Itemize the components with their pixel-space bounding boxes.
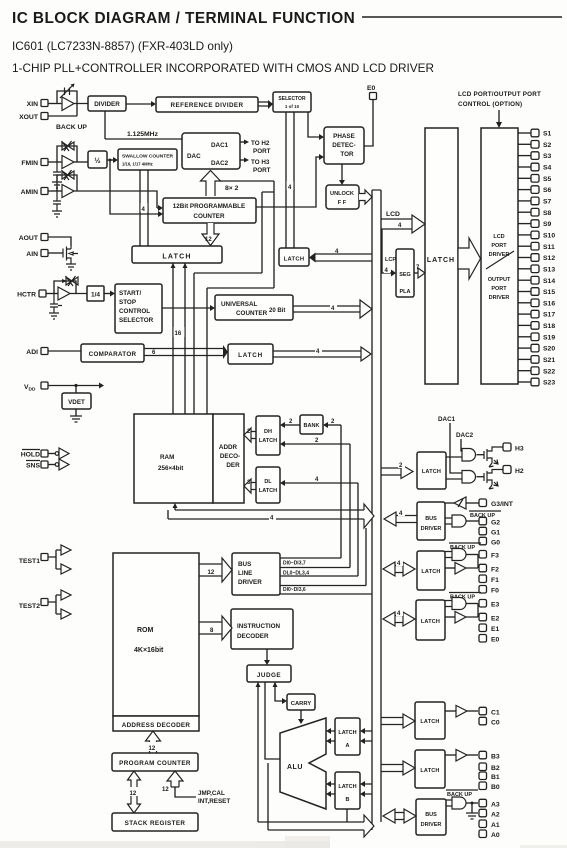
op-amp osc (62, 97, 74, 111)
wire AOUT (48, 237, 71, 246)
wire AMIN to amp (48, 190, 62, 192)
latch B box (415, 750, 445, 788)
ground AM (52, 211, 62, 217)
svg-text:TEST2: TEST2 (19, 603, 40, 610)
svg-text:DRIVER: DRIVER (489, 295, 510, 301)
svg-text:BACK UP: BACK UP (56, 124, 87, 131)
wire XIN to osc amp (48, 103, 62, 105)
label BACK UP A (446, 790, 478, 798)
svg-text:LATCH: LATCH (421, 619, 440, 625)
pin B2 (479, 763, 500, 772)
pin AIN (26, 250, 48, 259)
svg-text:B3: B3 (491, 754, 500, 761)
label 4 seg (384, 265, 390, 274)
svg-text:CARRY: CARRY (291, 701, 312, 707)
seg pla box (385, 249, 414, 297)
buffer SNS (48, 459, 69, 470)
main bus vertical A (371, 190, 373, 830)
wire gateH2 to fet (477, 476, 485, 478)
pin S13 (518, 265, 555, 273)
svg-text:LCD PORT/OUTPUT PORT: LCD PORT/OUTPUT PORT (458, 91, 541, 98)
svg-text:DECODER: DECODER (237, 633, 269, 640)
bus arrow E bidir (383, 608, 415, 626)
svg-text:LINE: LINE (238, 570, 252, 577)
pin H2 (503, 466, 524, 476)
svg-text:BUS: BUS (238, 561, 251, 568)
svg-text:E0: E0 (367, 85, 376, 92)
svg-text:12: 12 (149, 746, 156, 752)
wire judge to ALU left (265, 682, 280, 759)
transistor FM bias (53, 162, 61, 182)
unlock FF box (326, 185, 359, 209)
pin F3 (479, 551, 499, 560)
pin S16 (518, 299, 555, 307)
quarter box (87, 286, 104, 301)
scan smudge bottom (0, 836, 567, 848)
wire selector to phase detector (308, 112, 324, 140)
bus arrow B (381, 761, 415, 775)
wire HCTR to amp (46, 293, 58, 295)
wire lcd branch to seg (382, 229, 396, 277)
transistor AM bias (53, 191, 61, 211)
wire seg to tall latch 7 (414, 265, 425, 278)
ground A (466, 802, 478, 820)
svg-text:S14: S14 (543, 278, 555, 285)
pin B1 (479, 772, 500, 781)
wire DAC2 out (240, 158, 271, 175)
pin S3 (518, 152, 552, 160)
pin E1 (479, 624, 500, 633)
pin S6 (518, 186, 552, 194)
svg-text:B2: B2 (491, 765, 500, 772)
buffer pair TEST2 (48, 590, 71, 619)
reference divider box (156, 97, 258, 112)
bank box (300, 415, 323, 434)
and gate H3 (462, 449, 476, 462)
LCD port driver box (481, 128, 518, 384)
wire DAC1 out (240, 140, 271, 156)
svg-text:LCD: LCD (386, 211, 400, 218)
ground FM (52, 182, 62, 188)
bus arrow JMP into pc (162, 771, 196, 797)
svg-text:JMP,CAL: JMP,CAL (198, 790, 225, 797)
svg-text:1.125MHz: 1.125MHz (127, 131, 159, 138)
pin A0 (479, 830, 500, 839)
svg-text:HOLD: HOLD (21, 452, 40, 459)
buffer B3 (445, 750, 478, 762)
latch box main (132, 246, 222, 263)
svg-text:COMPARATOR: COMPARATOR (89, 351, 137, 358)
program counter box (112, 753, 198, 771)
wire judge to carry (273, 682, 288, 704)
wire riser2 (349, 444, 351, 568)
svg-text:LATCH: LATCH (420, 719, 439, 725)
ground HCTR (49, 313, 59, 319)
ROM box (113, 553, 199, 716)
svg-text:DAC2: DAC2 (211, 160, 229, 167)
svg-text:F0: F0 (491, 588, 499, 595)
svg-text:S6: S6 (543, 187, 552, 194)
svg-text:LATCH: LATCH (338, 784, 356, 790)
pin ADI (26, 348, 48, 357)
pin S23 (518, 378, 555, 386)
wire phase det to unlock ff (339, 164, 345, 185)
bus 16 latch drop (171, 263, 188, 414)
svg-text:12: 12 (208, 570, 215, 576)
latch E box (416, 600, 445, 640)
svg-text:12: 12 (162, 787, 169, 793)
pin E3 (479, 600, 500, 609)
svg-text:S7: S7 (543, 199, 552, 206)
svg-text:S16: S16 (543, 300, 555, 307)
svg-text:DECO-: DECO- (220, 453, 240, 460)
svg-text:UNLOCK: UNLOCK (330, 191, 354, 197)
svg-text:F F: F F (338, 200, 347, 206)
svg-text:S11: S11 (543, 244, 555, 251)
svg-text:INSTRUCTION: INSTRUCTION (237, 623, 280, 630)
wire riser2 to DH (280, 438, 350, 447)
svg-text:DRIVER: DRIVER (421, 822, 442, 828)
svg-text:1 of 10: 1 of 10 (285, 104, 300, 109)
svg-text:UNIVERSAL: UNIVERSAL (221, 301, 258, 308)
wire BLD out 1 (280, 557, 341, 559)
label 4 uc bus (330, 303, 337, 312)
svg-text:2: 2 (289, 419, 293, 425)
svg-text:REFERENCE DIVIDER: REFERENCE DIVIDER (171, 102, 244, 109)
and gate H2 (462, 471, 476, 484)
wire gateH3 to fet (477, 454, 485, 456)
wire bus to small latch (309, 253, 372, 263)
svg-text:S5: S5 (543, 176, 552, 183)
svg-text:12Bit PROGRAMMABLE: 12Bit PROGRAMMABLE (173, 203, 245, 210)
main bus vertical B (380, 190, 382, 822)
svg-text:PORT: PORT (491, 286, 507, 292)
svg-text:S3: S3 (543, 153, 552, 160)
stack register box (112, 813, 198, 831)
svg-text:DRIVER: DRIVER (421, 526, 442, 532)
buffer E2 (445, 604, 478, 624)
svg-text:1/4: 1/4 (91, 292, 100, 299)
pin S7 (518, 197, 552, 205)
label 4 fm bus (141, 203, 148, 213)
svg-text:S19: S19 (543, 334, 555, 341)
wire 8x2 (220, 181, 274, 273)
svg-text:4K×16bit: 4K×16bit (134, 647, 164, 654)
svg-text:PORT: PORT (491, 243, 507, 249)
pin S14 (518, 276, 555, 284)
svg-text:DI0~DI3,7: DI0~DI3,7 (283, 561, 306, 567)
svg-text:S22: S22 (543, 368, 555, 375)
DAC box (182, 133, 240, 169)
label BACK UP E (449, 593, 481, 601)
svg-text:PLA: PLA (400, 289, 411, 295)
wire riser1 (340, 425, 342, 558)
svg-text:ADDR: ADDR (219, 444, 238, 451)
svg-text:8× 2: 8× 2 (225, 185, 239, 192)
svg-text:E1: E1 (491, 626, 500, 633)
wire latchA to ALU (326, 728, 335, 744)
and gate G2 (445, 515, 479, 527)
svg-text:DER: DER (226, 462, 240, 469)
addr decoder box (213, 414, 244, 503)
svg-text:DH: DH (264, 429, 272, 435)
svg-text:DAC: DAC (187, 153, 201, 160)
svg-text:START/: START/ (119, 290, 142, 297)
wire VDD (48, 383, 104, 394)
svg-text:12: 12 (205, 237, 212, 243)
bus arrow 12 counter to latch (202, 223, 219, 246)
svg-text:CONTROL (OPTION): CONTROL (OPTION) (458, 101, 522, 108)
pin XIN (27, 100, 48, 109)
wire small latch drop left (194, 273, 262, 414)
universal counter box (215, 295, 293, 320)
pin S9 (518, 220, 552, 228)
pin XOUT (19, 113, 48, 122)
svg-text:A1: A1 (491, 822, 500, 829)
pin G1 (479, 527, 500, 536)
svg-text:C1: C1 (491, 710, 500, 717)
svg-text:LATCH: LATCH (420, 768, 439, 774)
wire riser4 (365, 528, 367, 586)
buffer F2 (445, 555, 478, 575)
DH latch box (256, 416, 280, 455)
diode pair FM (57, 141, 77, 162)
svg-text:PORT: PORT (253, 148, 271, 155)
svg-text:2: 2 (315, 438, 319, 444)
label BACK UP G (469, 511, 501, 519)
label BACK UP F (449, 543, 481, 551)
bus arrow ROM to BLD 12 (199, 558, 232, 582)
svg-text:AIN: AIN (26, 251, 38, 258)
svg-text:S23: S23 (543, 380, 555, 387)
buffer G3INT (445, 497, 479, 509)
svg-text:DETEC-: DETEC- (332, 142, 355, 149)
svg-text:LATCH: LATCH (338, 730, 356, 736)
wire judge feedback 2 (267, 763, 269, 830)
wire divider drop (104, 111, 106, 139)
buffer C1 (445, 706, 478, 718)
svg-text:S12: S12 (543, 255, 555, 262)
pin S17 (518, 310, 555, 318)
svg-text:DIVIDER: DIVIDER (94, 101, 120, 108)
bus swallow counter drop (140, 170, 148, 246)
svg-text:HCTR: HCTR (17, 292, 36, 299)
wire ADI to comparator (48, 350, 81, 352)
bus bottom pair (258, 815, 374, 837)
wire AM out (74, 191, 163, 211)
pin S22 (518, 367, 555, 375)
latch C box (415, 702, 445, 739)
transistor Q H3 (484, 447, 503, 467)
wire second drop left (207, 181, 274, 414)
bus arrow LCD to tall latch (381, 215, 425, 233)
pin B3 (479, 751, 500, 760)
bus comp latch out 4 (273, 346, 371, 361)
svg-text:F3: F3 (491, 553, 499, 560)
pin A2 (479, 809, 500, 818)
svg-text:IC BLOCK DIAGRAM / TERMINAL FU: IC BLOCK DIAGRAM / TERMINAL FUNCTION (12, 10, 355, 27)
svg-text:ALU: ALU (287, 764, 303, 771)
pin A1 (479, 820, 500, 829)
pin S10 (518, 231, 555, 239)
svg-text:LATCH: LATCH (162, 254, 191, 261)
latch F box (417, 551, 445, 590)
wire 1.125MHz to DAC (105, 138, 182, 140)
svg-text:INT,RESET: INT,RESET (198, 798, 230, 805)
wire osc feedback loop (48, 91, 88, 116)
svg-text:A3: A3 (491, 802, 500, 809)
svg-text:S18: S18 (543, 323, 555, 330)
wire quarter to startstop (104, 291, 115, 297)
latch B box (335, 772, 360, 809)
pin B0 (479, 782, 500, 791)
bus arrow A bidir (383, 809, 416, 823)
wire bank to DH (280, 419, 300, 428)
pin HCTR (17, 290, 46, 299)
svg-text:B1: B1 (491, 774, 500, 781)
svg-text:OUTPUT: OUTPUT (488, 277, 511, 283)
wire BLD out 4 (280, 585, 366, 587)
svg-text:1-CHIP PLL+CONTROLLER INCORPOR: 1-CHIP PLL+CONTROLLER INCORPORATED WITH … (12, 61, 434, 75)
svg-text:LATCH: LATCH (259, 438, 277, 444)
bus arrow F bidir (383, 558, 415, 576)
svg-text:E0: E0 (491, 637, 500, 644)
svg-text:H3: H3 (515, 446, 524, 453)
svg-text:A0: A0 (491, 832, 500, 839)
svg-text:TO H2: TO H2 (251, 140, 270, 147)
svg-text:E3: E3 (491, 602, 500, 609)
wire ref divider to selector (258, 100, 273, 109)
wire amp to quarter box (70, 293, 87, 295)
wire divider to reference divider (126, 101, 156, 107)
pin S21 (518, 356, 555, 364)
svg-text:LATCH: LATCH (422, 469, 441, 475)
svg-text:COUNTER: COUNTER (236, 310, 268, 317)
bus 4 selector drop (286, 112, 294, 248)
svg-text:DAC1: DAC1 (438, 416, 456, 423)
wire bus to latchB (360, 781, 372, 797)
bus line driver box (232, 553, 280, 595)
programmable counter box (163, 198, 256, 223)
svg-text:G1: G1 (491, 530, 500, 537)
latch A box (335, 718, 360, 755)
pin A3 (479, 799, 500, 808)
wire DAC2 drop (461, 439, 462, 451)
svg-text:ADI: ADI (26, 349, 38, 356)
bus universal counter out (293, 300, 372, 318)
wire half-swallow junction into prog counter (109, 159, 164, 218)
bus driver A box (416, 799, 446, 835)
svg-text:AMIN: AMIN (21, 189, 38, 196)
svg-text:S10: S10 (543, 233, 555, 240)
svg-text:DI0~DI3,6: DI0~DI3,6 (283, 587, 306, 593)
start stop control selector box (115, 284, 162, 333)
svg-text:DAC1: DAC1 (211, 142, 229, 149)
svg-text:12: 12 (130, 791, 137, 797)
wire riser1 to bank (323, 419, 341, 428)
pin S8 (518, 208, 552, 216)
wire riser3 (357, 483, 359, 576)
svg-text:256×4bit: 256×4bit (158, 465, 184, 472)
svg-text:F2: F2 (491, 567, 499, 574)
svg-text:S2: S2 (543, 142, 552, 149)
svg-text:C0: C0 (491, 720, 500, 727)
svg-text:S1: S1 (543, 131, 552, 138)
label LCD PORT/OUTPUT PORT CONTROL (458, 91, 541, 108)
bus arrow ROM to ID 8 (199, 616, 232, 640)
svg-text:XIN: XIN (27, 101, 38, 108)
pin S18 (518, 322, 555, 330)
svg-text:DAC2: DAC2 (456, 432, 474, 439)
svg-text:PROGRAM COUNTER: PROGRAM COUNTER (119, 760, 191, 767)
svg-text:TOR: TOR (340, 151, 354, 158)
svg-text:LCP: LCP (385, 257, 396, 263)
svg-text:S4: S4 (543, 165, 552, 172)
svg-text:DRIVER: DRIVER (238, 579, 262, 586)
wire RAM bottom bus (168, 503, 364, 519)
carry box (287, 694, 315, 710)
pin S4 (518, 163, 552, 171)
svg-text:S21: S21 (543, 357, 555, 364)
svg-text:ADDRESS DECODER: ADDRESS DECODER (122, 722, 191, 729)
bus arrow latch to LCD driver (458, 238, 481, 279)
pin S20 (518, 344, 555, 352)
title rule (362, 16, 562, 18)
svg-text:S17: S17 (543, 312, 555, 319)
wire prog counter to phase detector (256, 154, 324, 207)
and gate F3 (445, 549, 478, 561)
svg-text:DRIVER: DRIVER (489, 252, 510, 258)
bus arrow G to main bus (384, 508, 417, 526)
svg-text:H2: H2 (515, 468, 524, 475)
divider box (88, 96, 126, 111)
pin G3/INT (479, 499, 514, 508)
pin SNS (26, 461, 48, 470)
svg-text:FMIN: FMIN (21, 160, 38, 167)
svg-text:G3/INT: G3/INT (491, 501, 514, 508)
svg-text:STACK REGISTER: STACK REGISTER (125, 820, 186, 827)
svg-text:E2: E2 (491, 616, 500, 623)
pin G2 (479, 517, 500, 526)
diode pair HCTR (54, 276, 78, 294)
ALU shape (280, 718, 326, 809)
svg-text:A: A (346, 743, 350, 749)
svg-text:BUS: BUS (425, 812, 437, 818)
wire half to swallow (107, 157, 118, 163)
bus arrow unlock to main bus (359, 190, 372, 204)
judge box (247, 665, 291, 682)
wire FMIN to amp (48, 161, 62, 163)
wire latchB to ALU (326, 781, 335, 797)
svg-text:LATCH: LATCH (284, 257, 305, 263)
op-amp AM (62, 185, 74, 198)
svg-text:B0: B0 (491, 784, 500, 791)
svg-text:DL: DL (264, 479, 272, 485)
transistor Q H2 (484, 470, 503, 490)
wire riser3 to DL (280, 477, 358, 486)
svg-text:LATCH: LATCH (421, 569, 440, 575)
wire control arrow into driver (496, 110, 502, 128)
pin S1 (518, 129, 552, 137)
svg-text:S8: S8 (543, 210, 552, 217)
pin S5 (518, 175, 552, 183)
wire E0 to phase detector (364, 100, 373, 147)
label JMP CAL INT RESET (198, 790, 230, 805)
svg-text:ROM: ROM (137, 627, 154, 634)
bus arrow ram to main bus (364, 504, 374, 528)
pin E2 (479, 613, 500, 622)
svg-text:S9: S9 (543, 221, 552, 228)
